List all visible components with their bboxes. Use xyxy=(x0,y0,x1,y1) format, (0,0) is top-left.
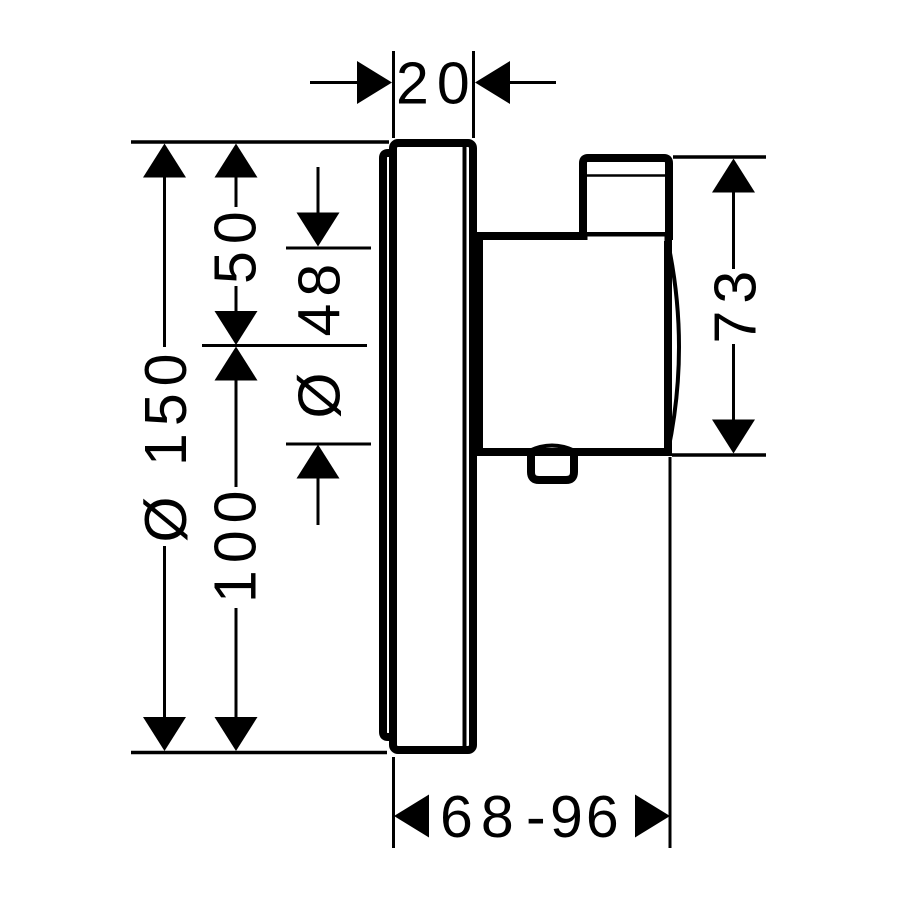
svg-text:150: 150 xyxy=(133,347,199,466)
svg-text:96: 96 xyxy=(550,784,622,850)
svg-text:68: 68 xyxy=(440,784,522,850)
svg-text:-: - xyxy=(526,784,546,850)
svg-text:48: 48 xyxy=(287,257,353,337)
svg-text:50: 50 xyxy=(203,204,269,284)
svg-text:Ø: Ø xyxy=(133,497,199,543)
svg-text:20: 20 xyxy=(396,51,478,117)
svg-text:100: 100 xyxy=(203,484,269,603)
svg-text:Ø: Ø xyxy=(287,373,353,419)
svg-text:73: 73 xyxy=(703,264,769,344)
